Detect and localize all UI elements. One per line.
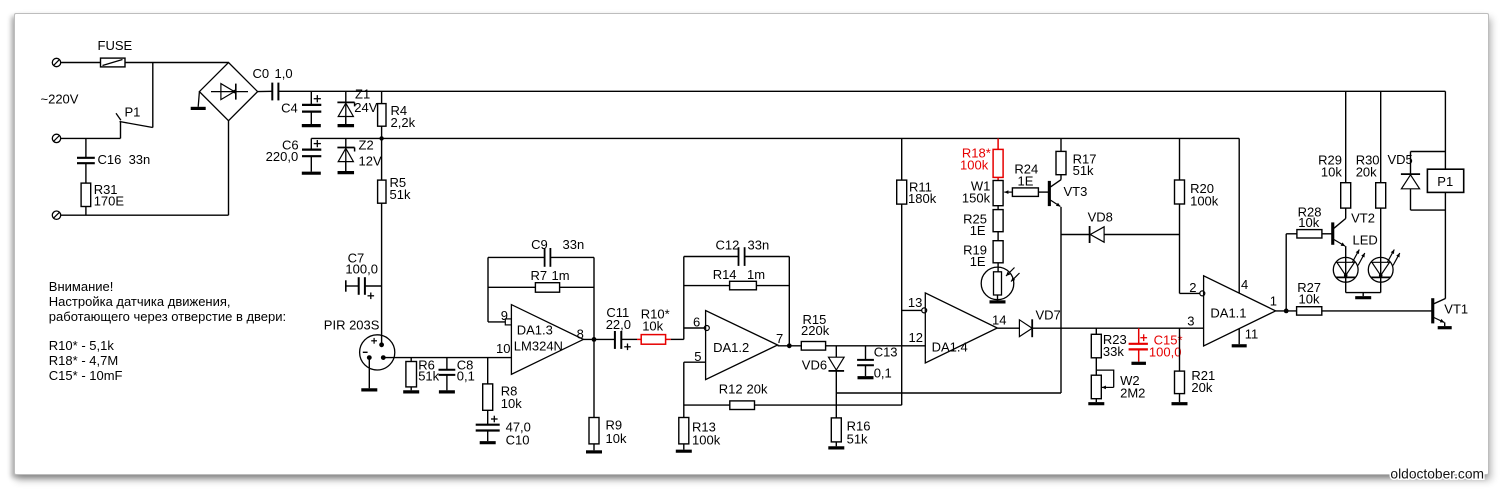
svg-text:20k: 20k [1191,380,1212,395]
svg-text:FUSE: FUSE [98,38,133,53]
svg-text:10k: 10k [642,318,663,333]
resistor R19 [963,241,1003,272]
svg-text:C0: C0 [253,66,270,81]
svg-text:C9: C9 [531,237,548,252]
resistor R7 [488,268,594,292]
svg-text:12: 12 [909,330,923,345]
svg-text:C16 33n: C16 33n [98,152,151,167]
wire DA1.1 pin4 from rail2 [1238,138,1240,293]
diode VD8 [1061,210,1180,244]
svg-text:DA1.3: DA1.3 [517,322,553,337]
junction rail2-R4 [379,136,383,140]
svg-text:R12: R12 [719,381,743,396]
svg-text:8: 8 [577,327,584,342]
svg-text:Настройка датчика движения,: Настройка датчика движения, [49,294,231,309]
terminal X3 bottom [52,211,60,219]
svg-text:20k: 20k [1356,165,1377,180]
svg-text:Внимание!: Внимание! [49,279,114,294]
svg-text:100,0: 100,0 [345,262,378,277]
capacitor C15* (red) [1129,328,1183,363]
bridge rectifier [199,63,257,121]
svg-text:0,1: 0,1 [457,369,475,384]
svg-text:R14: R14 [713,267,737,282]
zener Z1 [337,87,377,127]
resistor R4 [378,91,416,138]
svg-text:220,0: 220,0 [266,149,299,164]
svg-text:12V: 12V [359,154,382,169]
svg-text:20k: 20k [747,381,768,396]
resistor R31 [81,182,124,215]
svg-text:100k: 100k [692,433,721,448]
wire bottom input [61,214,229,216]
resistor R8 [483,358,523,411]
capacitor C0 [253,66,293,100]
wire R28 branch [1286,234,1297,311]
wire DA1.1 pin2 [1180,292,1200,294]
wire PIR out to DA1.3 pin10 [383,357,511,359]
svg-text:PIR 203S: PIR 203S [324,318,380,333]
diode VD6 [802,346,844,418]
resistor R30 [1356,91,1386,208]
svg-text:22,0: 22,0 [606,317,631,332]
node circle pin6 [704,326,709,331]
wire DA1.1 output [1276,309,1297,314]
svg-text:10k: 10k [1299,292,1320,307]
fuse FUSE [98,38,133,67]
resistor R25 [963,210,1003,241]
svg-text:P1: P1 [1437,174,1453,189]
wire terminal2 [61,137,121,139]
svg-text:10k: 10k [501,396,522,411]
svg-text:10: 10 [496,341,510,356]
ground DA1.1 pin11 [1232,329,1247,346]
svg-text:VT1: VT1 [1444,302,1468,317]
resistor R18* (red) [960,138,1003,180]
wire feedback left vert DA1.2 [683,257,685,340]
svg-text:4: 4 [1241,277,1248,292]
node circle pin13 [922,308,927,313]
potentiometer W2 [1088,370,1145,404]
svg-text:Z2: Z2 [359,138,374,153]
capacitor C4 [281,91,321,125]
svg-text:VT3: VT3 [1064,184,1088,199]
svg-text:24V: 24V [354,100,377,115]
diode VD7 [1019,307,1060,337]
wire DA1.2 pin5 [684,362,706,417]
relay coil P1 [1427,169,1463,192]
svg-text:33n: 33n [563,237,585,252]
svg-text:DA1.4: DA1.4 [932,340,968,355]
wire fuse branch down to contact [152,63,154,128]
svg-text:VD7: VD7 [1036,307,1061,322]
svg-text:11: 11 [1245,327,1259,342]
resistor R12 [684,381,902,409]
note text block [49,279,286,383]
capacitor C8 [439,357,475,392]
LED LED1 [1333,233,1377,293]
svg-text:10k: 10k [606,431,627,446]
wire bridge bottom [228,121,230,216]
svg-text:VD6: VD6 [802,357,827,372]
svg-text:1E: 1E [970,254,986,269]
svg-text:LM324N: LM324N [514,338,563,353]
svg-text:DA1.1: DA1.1 [1210,305,1246,320]
svg-text:14: 14 [992,313,1006,328]
wire 24V rail [278,90,1445,92]
wire 24V to relay [1444,91,1446,169]
wire VD7 to pin3 [1032,327,1203,329]
wire VD6 to VT3 emitter [836,392,1061,394]
svg-text:C10: C10 [506,433,530,448]
resistor R28 [1297,205,1332,238]
terminal X2 ~220V mid [52,134,60,142]
svg-text:220k: 220k [801,323,830,338]
resistor R29 [1318,91,1351,218]
wire DA1.2 output [778,343,802,348]
relay contact P1 [116,105,153,139]
op-amp DA1.2 [693,311,783,380]
svg-text:DA1.2: DA1.2 [713,340,749,355]
svg-text:~220V: ~220V [41,92,79,107]
resistor R24 [1004,162,1048,197]
svg-text:работающего через отверстие в: работающего через отверстие в двери: [49,309,286,324]
node square pin9 [505,319,511,325]
svg-text:R7: R7 [531,268,548,283]
svg-text:oldoctober.com: oldoctober.com [1390,467,1484,482]
resistor R13 [676,418,721,452]
op-amp DA1.4 [908,293,1007,363]
svg-text:13: 13 [908,295,922,310]
resistor R11 [897,138,937,405]
svg-text:7: 7 [776,331,783,346]
wire R5 down to PIR [381,203,383,345]
wire 12V rail [311,137,1239,139]
svg-text:P1: P1 [125,105,141,120]
svg-text:2,2k: 2,2k [391,115,416,130]
wire VT3 emitter down [1060,207,1062,393]
svg-text:1E: 1E [1018,174,1034,189]
svg-text:1: 1 [1270,294,1277,309]
svg-text:100,0: 100,0 [1149,345,1182,360]
svg-text:150k: 150k [962,191,991,206]
capacitor C13 [857,344,897,380]
svg-text:VD5: VD5 [1388,152,1413,167]
wire fuse to bridge [125,62,229,64]
wire feedback right vert DA1.3 [593,257,595,339]
wire input top [61,62,101,64]
resistor R27 [1297,280,1432,315]
svg-text:C4: C4 [281,101,298,116]
svg-text:180k: 180k [908,191,937,206]
svg-text:51k: 51k [1073,163,1094,178]
LED LED2 [1368,208,1400,293]
op-amp DA1.3 [496,305,584,375]
node circle pin2 [1200,291,1205,296]
svg-text:33n: 33n [748,238,770,253]
transistor VT3 [1048,180,1087,207]
svg-text:C12: C12 [716,238,740,253]
svg-text:2: 2 [1189,280,1196,295]
svg-text:6: 6 [693,315,700,330]
ground bridge [191,92,206,109]
resistor R9 [586,418,627,452]
svg-text:0,1: 0,1 [874,365,892,380]
resistor R14 [684,267,790,290]
potentiometer W1 [962,179,1003,210]
capacitor C9 [488,237,594,267]
svg-text:3: 3 [1187,314,1194,329]
svg-text:51k: 51k [847,432,868,447]
resistor R23 [1091,328,1126,375]
ground PIR [361,358,377,390]
svg-text:1m: 1m [552,268,570,283]
watermark oldoctober.com [1390,467,1484,482]
capacitor C6 [266,138,322,174]
wire DA1.2 pin6 [684,327,705,329]
svg-text:170E: 170E [94,194,125,209]
label ~220V [41,92,79,107]
terminal X1 ~220V top [52,58,60,66]
svg-text:100k: 100k [1190,193,1219,208]
wire DA1.3 pin9 [488,321,511,323]
wire feedback left vert DA1.3 [487,257,489,322]
svg-text:10k: 10k [1298,215,1319,230]
capacitor C16 [77,138,150,183]
capacitor C10 [476,410,531,447]
transistor VT1 [1432,299,1469,328]
svg-text:33k: 33k [1103,344,1124,359]
svg-text:R10* - 5,1k: R10* - 5,1k [49,338,115,353]
wire R9 vert [593,339,595,417]
resistor R5 [378,138,411,203]
svg-text:1,0: 1,0 [275,66,293,81]
svg-text:10k: 10k [1321,165,1342,180]
svg-text:1E: 1E [970,223,986,238]
wire DA1.4 output [997,327,1019,329]
wire feedback right vert DA1.2 [788,257,790,346]
capacitor C7 [345,251,381,300]
zener Z2 [337,138,382,173]
wire DA1.3 output [583,337,615,342]
resistor R15 [801,312,925,350]
resistor R21 [1172,328,1216,404]
svg-text:C15* - 10mF: C15* - 10mF [49,368,123,383]
svg-text:51k: 51k [418,369,439,384]
ground LEDs [1346,293,1381,298]
op-amp DA1.1 [1187,276,1277,346]
svg-text:VT2: VT2 [1351,211,1375,226]
svg-text:2M2: 2M2 [1120,386,1145,401]
resistor R17 [1056,138,1096,179]
photoresistor [981,267,1019,302]
svg-text:VD8: VD8 [1088,210,1113,225]
resistor R20 [1175,138,1219,293]
transistor VT2 [1332,211,1375,247]
diode VD5 [1388,152,1446,211]
resistor R16 [828,418,870,448]
wire relay to VT1 [1444,192,1446,298]
svg-text:1m: 1m [747,267,765,282]
svg-text:51k: 51k [390,187,411,202]
PIR sensor PIR 203S [324,318,395,371]
svg-text:C13: C13 [874,344,898,359]
capacitor C11 [606,305,637,350]
svg-text:LED: LED [1353,233,1378,248]
wire DA1.4 pin13 [902,309,922,311]
svg-text:R18* - 4,7M: R18* - 4,7M [49,353,118,368]
capacitor C12 [684,238,790,266]
svg-text:100k: 100k [960,158,989,173]
resistor R10* (red) [637,306,684,344]
resistor R6 [403,357,439,392]
